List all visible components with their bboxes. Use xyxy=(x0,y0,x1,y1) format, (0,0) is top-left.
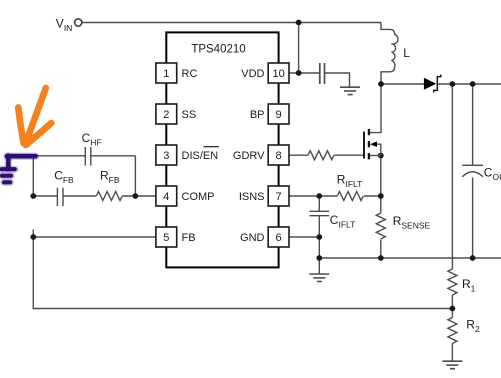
svg-text:BP: BP xyxy=(250,109,265,121)
svg-text:COMP: COMP xyxy=(182,191,215,203)
svg-text:RC: RC xyxy=(182,68,198,80)
svg-text:L: L xyxy=(403,46,410,60)
svg-text:6: 6 xyxy=(276,232,282,244)
svg-text:2: 2 xyxy=(163,109,169,121)
svg-text:5: 5 xyxy=(163,232,169,244)
svg-text:10: 10 xyxy=(272,68,284,80)
svg-text:9: 9 xyxy=(276,109,282,121)
svg-text:DIS/EN: DIS/EN xyxy=(182,150,219,162)
svg-text:GDRV: GDRV xyxy=(233,150,265,162)
svg-text:SS: SS xyxy=(182,109,197,121)
svg-text:1: 1 xyxy=(163,68,169,80)
svg-text:TPS40210: TPS40210 xyxy=(191,44,245,56)
svg-text:GND: GND xyxy=(240,232,265,244)
svg-text:FB: FB xyxy=(182,232,196,244)
svg-text:VDD: VDD xyxy=(241,68,264,80)
svg-text:8: 8 xyxy=(276,150,282,162)
svg-text:3: 3 xyxy=(163,150,169,162)
svg-text:4: 4 xyxy=(163,191,169,203)
svg-text:ISNS: ISNS xyxy=(239,191,265,203)
svg-text:7: 7 xyxy=(276,191,282,203)
